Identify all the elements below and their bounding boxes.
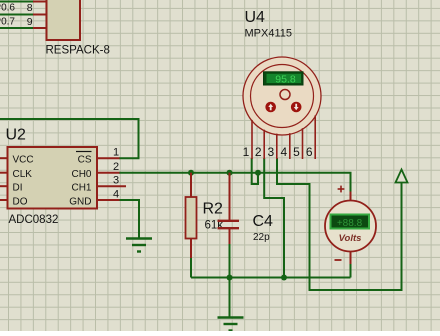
svg-text:P0.6: P0.6 — [0, 3, 15, 14]
svg-text:U2: U2 — [6, 127, 27, 144]
svg-text:VCC: VCC — [13, 155, 34, 166]
svg-text:GND: GND — [69, 197, 91, 208]
svg-text:4: 4 — [113, 189, 119, 201]
svg-text:RESPACK-8: RESPACK-8 — [46, 45, 110, 57]
svg-text:CH1: CH1 — [71, 183, 91, 194]
svg-text:DI: DI — [13, 183, 23, 194]
svg-text:9: 9 — [27, 16, 33, 28]
svg-text:MPX4115: MPX4115 — [245, 28, 293, 40]
svg-text:P0.7: P0.7 — [0, 17, 15, 28]
svg-text:2: 2 — [113, 161, 119, 173]
svg-text:1: 1 — [243, 145, 250, 159]
svg-text:8: 8 — [27, 2, 33, 14]
svg-text:DO: DO — [13, 197, 28, 208]
svg-text:U4: U4 — [245, 9, 266, 26]
svg-text:5: 5 — [293, 145, 300, 159]
svg-text:CS: CS — [78, 155, 92, 166]
svg-text:1: 1 — [113, 147, 119, 159]
svg-text:+88.8: +88.8 — [337, 218, 363, 229]
svg-text:95.8: 95.8 — [275, 74, 296, 86]
svg-text:CH0: CH0 — [71, 169, 91, 180]
svg-text:R2: R2 — [203, 201, 224, 218]
svg-text:ADC0832: ADC0832 — [9, 214, 59, 226]
svg-text:3: 3 — [113, 175, 119, 187]
svg-text:6: 6 — [306, 145, 313, 159]
svg-text:4: 4 — [280, 145, 287, 159]
svg-text:C4: C4 — [253, 213, 274, 230]
svg-text:22p: 22p — [253, 232, 270, 243]
svg-text:CLK: CLK — [13, 169, 33, 180]
svg-text:2: 2 — [255, 145, 262, 159]
svg-text:Volts: Volts — [339, 233, 362, 244]
svg-text:3: 3 — [267, 145, 274, 159]
